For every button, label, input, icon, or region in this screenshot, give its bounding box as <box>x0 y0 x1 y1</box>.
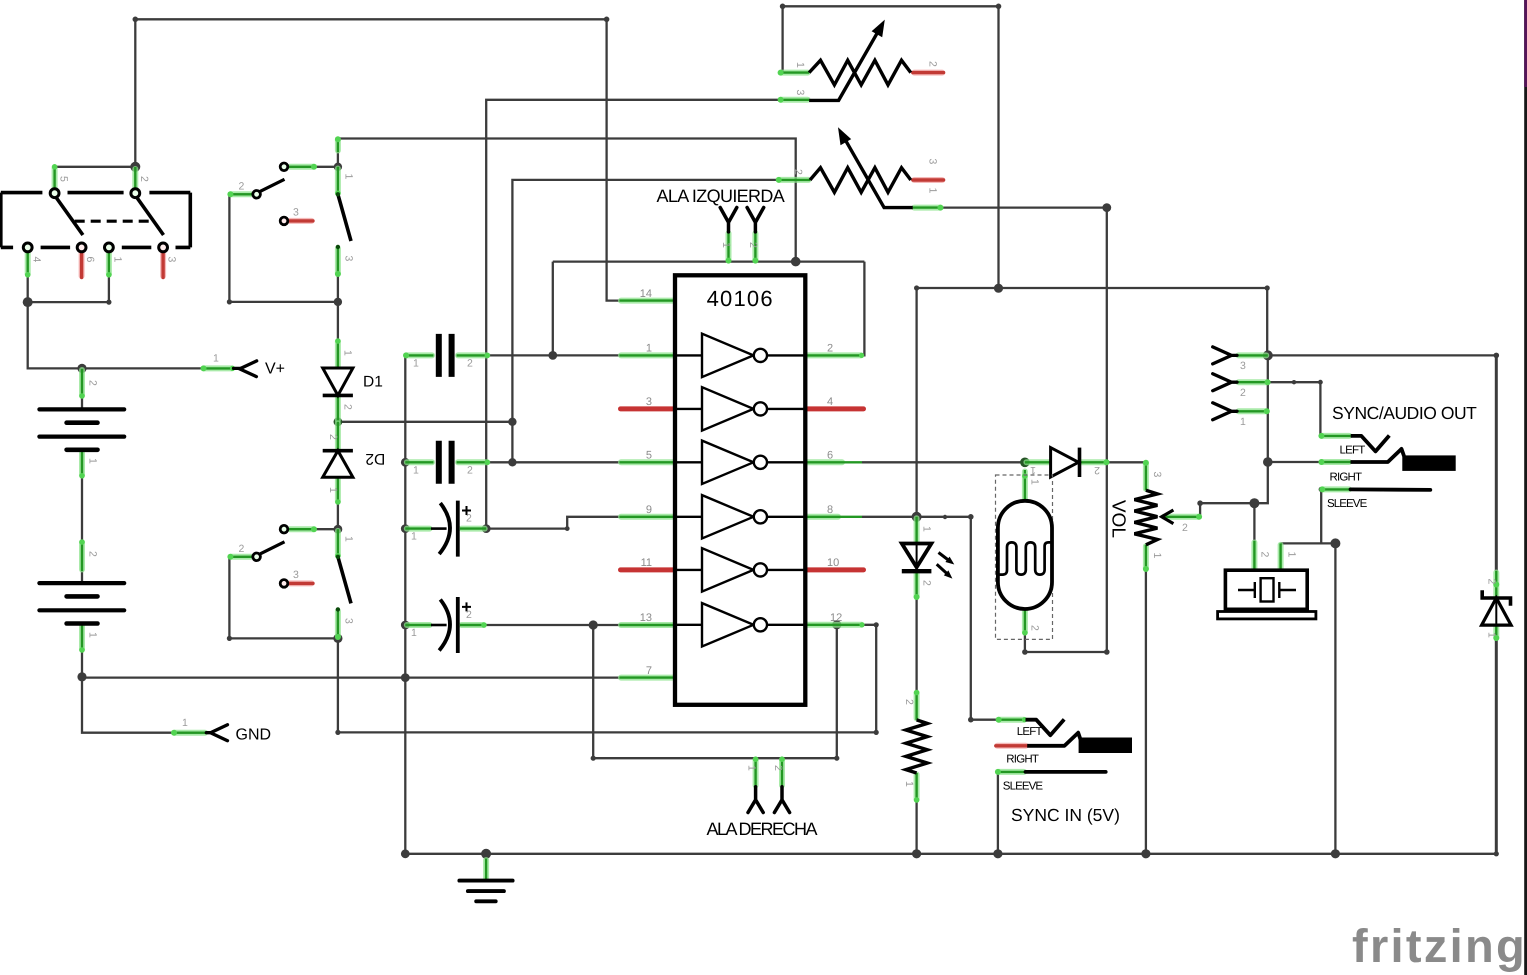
wire switch2 bottom pin lead <box>337 609 339 638</box>
pin labels D1 D2 <box>327 350 354 493</box>
pin D3.1 green <box>1025 459 1051 465</box>
pin LDR.2 green <box>1022 609 1028 636</box>
svg-text:1: 1 <box>1240 416 1246 428</box>
svg-text:6: 6 <box>827 450 833 462</box>
pin LDR.1 green <box>1022 470 1028 501</box>
svg-text:1: 1 <box>1286 552 1298 558</box>
jack J2 SLEEVE contact <box>1026 770 1106 774</box>
node switch2 bottom loop <box>333 634 342 643</box>
node battery1 plus tap <box>77 364 86 373</box>
pin labels ALA connectors <box>720 242 784 771</box>
svg-text:1: 1 <box>927 188 939 194</box>
wire D2 anode to switch2 node <box>337 477 339 529</box>
svg-text:SYNC IN (5V): SYNC IN (5V) <box>1011 805 1120 825</box>
pin IC.10 red <box>806 567 863 572</box>
wire pin13 node feedback loop to pin12 <box>593 625 837 758</box>
diode D3 <box>1051 448 1080 477</box>
pin SYNC OUT.3 green <box>1237 352 1268 358</box>
inverter gate 5 <box>675 548 805 591</box>
svg-text:2: 2 <box>1094 464 1100 476</box>
wire IC pin6 to LDR node <box>862 461 1025 463</box>
jack J1 RIGHT ring contact <box>1351 449 1456 471</box>
pin labels switch S3 <box>239 536 355 624</box>
svg-text:14: 14 <box>640 288 652 300</box>
battery BAT1 <box>39 409 124 449</box>
svg-text:2: 2 <box>1182 522 1188 534</box>
svg-text:3: 3 <box>343 618 355 624</box>
pin labels trimmers <box>792 61 939 194</box>
svg-text:1: 1 <box>111 257 123 263</box>
wire pin14 drop from V+ rail <box>607 19 620 300</box>
wire SYNC OUT pin2 to LEFT jack <box>1269 382 1321 436</box>
LED LED1 <box>902 544 955 579</box>
capacitor C3 electrolytic <box>431 501 471 557</box>
pin LEFT in green <box>996 717 1028 723</box>
pin DPDT.4 green <box>25 252 31 277</box>
pin RIGHT out green <box>1318 459 1350 465</box>
svg-text:5: 5 <box>646 450 652 462</box>
wire switch2 node to IC pin12 long run <box>338 625 876 733</box>
svg-text:5: 5 <box>58 176 70 182</box>
pin D1.2 green <box>335 395 341 421</box>
pin V+ net green <box>201 365 236 371</box>
svg-text:1: 1 <box>343 174 355 180</box>
svg-text:2: 2 <box>466 609 472 621</box>
node cap2 pin1 on GND bus <box>401 458 410 467</box>
node D1-D2 junction <box>334 417 343 426</box>
svg-text:1: 1 <box>413 358 419 370</box>
node IC pin8 / LED <box>912 512 922 522</box>
pin switch2.1 green <box>335 529 341 558</box>
svg-text:2: 2 <box>87 380 99 386</box>
pin D3.2 green <box>1080 459 1110 465</box>
svg-text:LEFT: LEFT <box>1017 726 1043 738</box>
node IC pin6 / D3 / LDR <box>1020 458 1030 468</box>
node SYNC OUT pin1 arrow symbol <box>1213 403 1237 420</box>
wire switch1 left loop <box>229 194 338 302</box>
pin DPDT.1 green <box>106 252 112 277</box>
pin IC.3 red <box>621 406 675 411</box>
capacitor C4 electrolytic <box>431 597 471 653</box>
wire DPDT pin1 elbow to pin4 node <box>28 275 109 302</box>
svg-text:2: 2 <box>903 699 915 705</box>
node switch2 common <box>334 525 343 534</box>
right canvas border <box>1524 0 1527 975</box>
svg-text:3: 3 <box>646 396 652 408</box>
pin pot2.1 green <box>913 205 944 211</box>
svg-text:3: 3 <box>1151 472 1163 478</box>
svg-text:3: 3 <box>927 159 939 165</box>
pin cap3.2 green <box>460 526 486 532</box>
node VOL pin1 on bottom bus <box>1141 849 1150 858</box>
wire GND node elbow to GND symbol <box>82 677 206 733</box>
svg-text:2: 2 <box>239 543 245 555</box>
pin DPDT.5 green <box>52 164 58 191</box>
wire IC pin8 to SYNC IN LEFT <box>862 517 998 720</box>
svg-text:7: 7 <box>646 665 652 677</box>
corner dots <box>106 300 111 305</box>
svg-text:6: 6 <box>84 257 96 263</box>
wire RIGHT node up to SYNC OUT pin3 node <box>1267 355 1269 462</box>
pin R1.2 green <box>914 690 920 720</box>
pin IC.4 red <box>806 406 863 411</box>
svg-text:SLEEVE: SLEEVE <box>1003 781 1044 793</box>
svg-text:LEFT: LEFT <box>1340 445 1366 457</box>
node pot1 pin1 on SYNC rail <box>994 284 1003 293</box>
wire VOL wiper elbow to RIGHT node <box>1200 462 1268 517</box>
pin labels batteries <box>87 380 99 638</box>
pin SLEEVE in green <box>995 769 1026 775</box>
pin cap2.1 green <box>405 459 433 465</box>
svg-text:1: 1 <box>921 526 933 532</box>
resistor RV2 trimmer lower <box>810 127 913 207</box>
op-amp U1 40106 body <box>675 275 805 705</box>
node GND net symbol <box>206 725 227 741</box>
diode D4 zener <box>1482 590 1512 625</box>
pin labels DPDT <box>31 176 178 263</box>
svg-text:RIGHT: RIGHT <box>1006 754 1039 766</box>
wire piezo pin1 link to ground drop <box>1281 543 1336 853</box>
pin switch1 top green <box>335 136 341 152</box>
pin IC.8 green <box>805 514 862 520</box>
svg-text:40106: 40106 <box>707 286 774 311</box>
wire ALA IZQUIERDA right drop to IC pin2 <box>863 262 865 356</box>
pin IC.7 green <box>620 675 676 681</box>
pin cap1.1 green <box>403 352 434 358</box>
node SYNC IN sleeve on bottom bus <box>993 849 1002 858</box>
wire V+ rail left drop to DPDT node <box>134 19 136 167</box>
svg-text:VOL: VOL <box>1107 500 1128 538</box>
node cap3 pin1 on GND bus <box>401 524 410 533</box>
pin IC.14 green <box>620 298 676 304</box>
wire zener to bottom bus corner <box>1495 640 1498 854</box>
pin ALA IZQUIERDA.2 green <box>752 232 758 264</box>
svg-text:2: 2 <box>239 181 245 193</box>
svg-text:2: 2 <box>138 176 150 182</box>
svg-text:1: 1 <box>411 531 417 543</box>
node ALA DERECHA pin1 Y symbol <box>748 787 763 813</box>
pin VOL.3 green <box>1143 460 1149 491</box>
pin pot1.3 green <box>778 97 810 103</box>
pin switch2.3bottom green <box>335 609 341 640</box>
wire switch1 bottom pin lead <box>337 247 339 302</box>
wire pot2 left pin long run <box>512 180 777 462</box>
piezo SPK1 <box>1218 570 1316 619</box>
pin IC.11 red <box>621 567 675 572</box>
svg-text:SLEEVE: SLEEVE <box>1327 498 1368 510</box>
pin labels VOL <box>1151 472 1188 559</box>
pin labels V+ GND <box>182 353 219 730</box>
pin DPDT.6 red <box>79 252 85 277</box>
pin GND net green <box>171 730 206 736</box>
svg-text:1: 1 <box>327 487 339 493</box>
pin pot2.3 red <box>913 177 944 183</box>
inverter gate 4 <box>675 495 805 538</box>
pin battery2.2 green <box>79 539 85 571</box>
pin labels switch S2 <box>239 174 355 262</box>
pin D1.1 green <box>335 338 341 368</box>
wire bottom ground bus <box>405 853 1496 855</box>
wire top-left V+ rail horizontal <box>135 18 606 20</box>
svg-text:10: 10 <box>827 557 839 569</box>
wire SYNC IN SLEEVE to bottom bus <box>997 772 999 854</box>
svg-text:2: 2 <box>467 358 473 370</box>
capacitor C2 <box>439 441 452 484</box>
node switch1 bottom loop <box>334 298 342 306</box>
node R1 on bottom bus <box>912 849 921 858</box>
svg-text:1: 1 <box>1030 464 1036 476</box>
svg-text:1: 1 <box>87 458 99 464</box>
node GND bus bottom corner <box>401 849 410 858</box>
pin LED.2 green <box>914 571 920 600</box>
svg-text:2: 2 <box>927 61 939 67</box>
svg-text:1: 1 <box>342 350 354 356</box>
pin cap2.2 green <box>457 460 491 466</box>
pin VOL.1 green <box>1143 545 1149 572</box>
svg-text:2: 2 <box>87 551 99 557</box>
node SYNC OUT pin3 arrow symbol <box>1213 347 1237 364</box>
pin cap4.2 green <box>460 622 487 628</box>
svg-text:2: 2 <box>1029 625 1041 631</box>
jack J1 SLEEVE contact <box>1351 487 1431 491</box>
svg-text:3: 3 <box>165 257 177 263</box>
LDR R2 <box>996 475 1053 639</box>
resistor R1 <box>906 720 927 773</box>
pin DPDT.3 red <box>160 252 166 277</box>
pin cap3.1 green <box>405 526 431 532</box>
node pot2 wiper wire corner <box>508 418 516 426</box>
svg-text:D1: D1 <box>363 374 383 391</box>
wire right edge vertical to zener <box>1495 355 1498 571</box>
wire SYNC OUT pin3 node to right edge <box>1268 354 1497 356</box>
svg-text:2: 2 <box>1240 387 1246 399</box>
svg-text:3: 3 <box>794 90 806 96</box>
wire cap4 pin2 to IC pin13 <box>485 624 620 626</box>
wire LDR pin2 lead <box>1024 634 1026 652</box>
pin battery2.1 green <box>79 624 85 653</box>
wire switch2 pin2 left lead <box>229 556 252 558</box>
pin switch1.3 red <box>288 218 313 224</box>
svg-text:1: 1 <box>1486 632 1498 638</box>
wire cap2 pin2 to IC pin5 <box>488 461 619 463</box>
pin ALA DERECHA.2 green <box>779 756 785 786</box>
pin SYNC IN RIGHT red <box>996 743 1027 749</box>
node V+ net symbol <box>234 361 257 377</box>
svg-text:1: 1 <box>1151 553 1163 559</box>
wire switch2 throwA to node <box>289 528 338 530</box>
wire DPDT pin4 down to V+ tap <box>28 275 203 368</box>
node earth symbol tap <box>481 849 491 859</box>
node SYNC OUT pin3 <box>1263 350 1273 360</box>
svg-text:8: 8 <box>827 504 833 516</box>
svg-text:2: 2 <box>747 242 759 248</box>
pin switch1.2 green <box>227 191 252 197</box>
wire LED cathode to R1 <box>915 598 917 692</box>
pin IC.12 green <box>805 622 864 627</box>
svg-text:3: 3 <box>293 207 299 219</box>
switch S1 DPDT body <box>1 189 191 252</box>
wire D1 cathode to D2 node <box>337 395 339 450</box>
pin switch1.3bottom green <box>335 247 341 277</box>
svg-text:1: 1 <box>903 781 915 787</box>
capacitor C1 <box>439 334 452 377</box>
wire switch1 node to D1 anode <box>337 302 339 368</box>
node feedback tap on pin12 stub <box>832 620 841 629</box>
wire pot2 pin1 to right column <box>942 208 1107 652</box>
pin IC.5 green <box>620 459 676 465</box>
svg-text:2: 2 <box>466 513 472 525</box>
pin IC.13 green <box>620 622 676 628</box>
wire SYNC rail drop to IC pin8 node <box>915 288 917 517</box>
pin D2.2 green <box>335 422 341 451</box>
svg-text:9: 9 <box>646 504 652 516</box>
wire SLEEVE OUT drop <box>1320 489 1322 543</box>
node RIGHT jack junction <box>1263 457 1273 467</box>
pin labels capacitors <box>411 358 473 640</box>
svg-text:2: 2 <box>772 765 784 771</box>
wire switch1 common stub <box>337 139 339 167</box>
wire battery2 pin1 to GND node <box>81 624 83 677</box>
pin IC.1 green <box>620 352 676 358</box>
jack J2 RIGHT ring contact <box>1027 733 1132 753</box>
wire switch1 throwA to node <box>289 166 338 168</box>
wire GND node to IC pin7 <box>82 676 620 678</box>
pin switch1 throwA green <box>289 164 318 170</box>
wire ALA IZQUIERDA bus <box>553 260 865 262</box>
node cap4 pin1 on GND bus <box>401 621 410 630</box>
pin switch2.2 green <box>227 554 252 560</box>
pin LED.1 green <box>914 517 920 544</box>
wire battery1 pin1 to battery2 pin2 <box>81 450 83 583</box>
svg-text:2: 2 <box>1486 579 1498 585</box>
svg-text:13: 13 <box>640 612 652 624</box>
node DPDT pin4 / pin1 / V+ junction <box>23 297 33 307</box>
pin IC.9 green <box>620 514 676 520</box>
inverter gate 6 <box>675 603 805 646</box>
pin IC.2 green <box>805 353 864 358</box>
svg-text:1: 1 <box>794 62 806 68</box>
pin numbers U1 left <box>640 288 652 677</box>
diode D1 <box>323 368 353 395</box>
pin LEFT out green <box>1318 433 1350 439</box>
wire switch1 pin2 left lead <box>229 193 252 195</box>
wire VOL pin1 to bottom bus <box>1145 570 1147 854</box>
wire ALA IZQUIERDA left drop to cap1 node <box>552 262 554 356</box>
pin pot2.2 green <box>776 177 810 183</box>
node SYNC OUT pin2 arrow symbol <box>1213 374 1237 391</box>
pin pot1.2 red <box>913 70 944 76</box>
pin numbers U1 right <box>827 343 842 624</box>
wire piezo pin2 tap <box>1253 503 1255 541</box>
switch S3 SPDT lower <box>253 525 351 611</box>
wire DPDT pin5 to pin2 node <box>55 166 136 168</box>
node pot2 pin1 corner <box>1102 203 1111 212</box>
node feedback tap on pin13 wire <box>589 620 598 629</box>
svg-text:SYNC/AUDIO OUT: SYNC/AUDIO OUT <box>1332 403 1477 423</box>
svg-text:1: 1 <box>413 464 419 476</box>
node pot2 wiper on cap2 wire <box>508 458 516 466</box>
resistor VOL potentiometer <box>1134 490 1173 545</box>
pin zener.1 green <box>1493 625 1499 641</box>
pin SYNC OUT.1 green <box>1237 408 1270 414</box>
svg-text:V+: V+ <box>265 361 285 378</box>
svg-text:4: 4 <box>827 396 833 408</box>
pin IC.6 green <box>805 459 862 465</box>
svg-text:fritzing: fritzing <box>1352 919 1527 972</box>
pin switch2 throwA green <box>289 526 318 532</box>
svg-text:1: 1 <box>746 765 758 771</box>
node piezo pin2 tap <box>1249 498 1259 508</box>
wire pot1 pin3 long run <box>486 100 779 529</box>
svg-text:1: 1 <box>87 632 99 638</box>
svg-text:1: 1 <box>182 717 188 729</box>
node ALA DERECHA pin2 Y symbol <box>774 787 789 813</box>
node cap1 pin2 / ALA IZQ drop <box>548 351 557 360</box>
svg-text:RIGHT: RIGHT <box>1330 472 1363 484</box>
wire cap1 pin2 to IC pin1 <box>488 354 619 356</box>
wire battery1 pin2 lead <box>81 368 83 409</box>
svg-text:GND: GND <box>236 727 272 744</box>
svg-text:3: 3 <box>293 569 299 581</box>
pin cap4.1 green <box>405 622 431 628</box>
pin ALA IZQUIERDA.1 green <box>726 232 732 264</box>
pin ALA DERECHA.1 green <box>753 756 759 786</box>
wire switch1 top to pot area drop <box>338 139 796 262</box>
pin DPDT.2 green <box>132 167 138 191</box>
node pin7 wire on GND bus <box>401 673 410 682</box>
svg-text:D2: D2 <box>365 450 385 467</box>
pin pot1.1 green <box>778 70 810 76</box>
wire RIGHT node to ring jack <box>1268 461 1321 463</box>
pin labels LED R1 <box>903 526 933 787</box>
node ALA IZQUIERDA pin1 Y symbol <box>720 208 737 232</box>
resistor RV1 trimmer top <box>809 20 911 101</box>
wire pot1 pin1 loop to SYNC node <box>783 6 999 288</box>
wire left vertical GND bus <box>404 355 406 853</box>
node DPDT pin2 top <box>130 162 140 172</box>
pin R1.1 green <box>914 773 920 803</box>
svg-text:3: 3 <box>343 256 355 262</box>
pin battery1.2 green <box>79 369 85 399</box>
inverter gate 1 <box>675 334 805 377</box>
node battery2 minus / GND <box>77 672 86 681</box>
battery BAT2 <box>39 583 124 623</box>
inverter gate 2 <box>675 387 805 430</box>
jack J2 LEFT tip contact <box>1026 719 1065 735</box>
svg-text:3: 3 <box>1240 360 1246 372</box>
node ALA IZQ / pot drop <box>791 257 801 267</box>
pin earth green <box>483 859 489 880</box>
wire SYNC top rail <box>917 288 1268 355</box>
svg-text:1: 1 <box>343 536 355 542</box>
pin SYNC OUT.2 green <box>1237 379 1271 385</box>
wire R1 to bottom bus <box>915 801 917 854</box>
pin SLEEVE out green <box>1319 486 1350 492</box>
wire switch2 left loop <box>229 557 338 639</box>
svg-text:4: 4 <box>31 257 43 263</box>
svg-text:2: 2 <box>1259 552 1271 558</box>
ground earth symbol <box>459 881 512 902</box>
svg-text:ALA IZQUIERDA: ALA IZQUIERDA <box>657 186 785 206</box>
node cap3 pin2 / pot1 pin3 <box>482 524 491 533</box>
jack J1 LEFT tip contact <box>1351 436 1390 452</box>
pin switch1.1 green <box>335 167 341 196</box>
node switch1 common <box>334 163 342 171</box>
svg-text:1: 1 <box>646 343 652 355</box>
pin piezo.2 green <box>1251 541 1257 570</box>
node piezo ground link <box>1330 538 1340 548</box>
svg-text:1: 1 <box>411 627 417 639</box>
